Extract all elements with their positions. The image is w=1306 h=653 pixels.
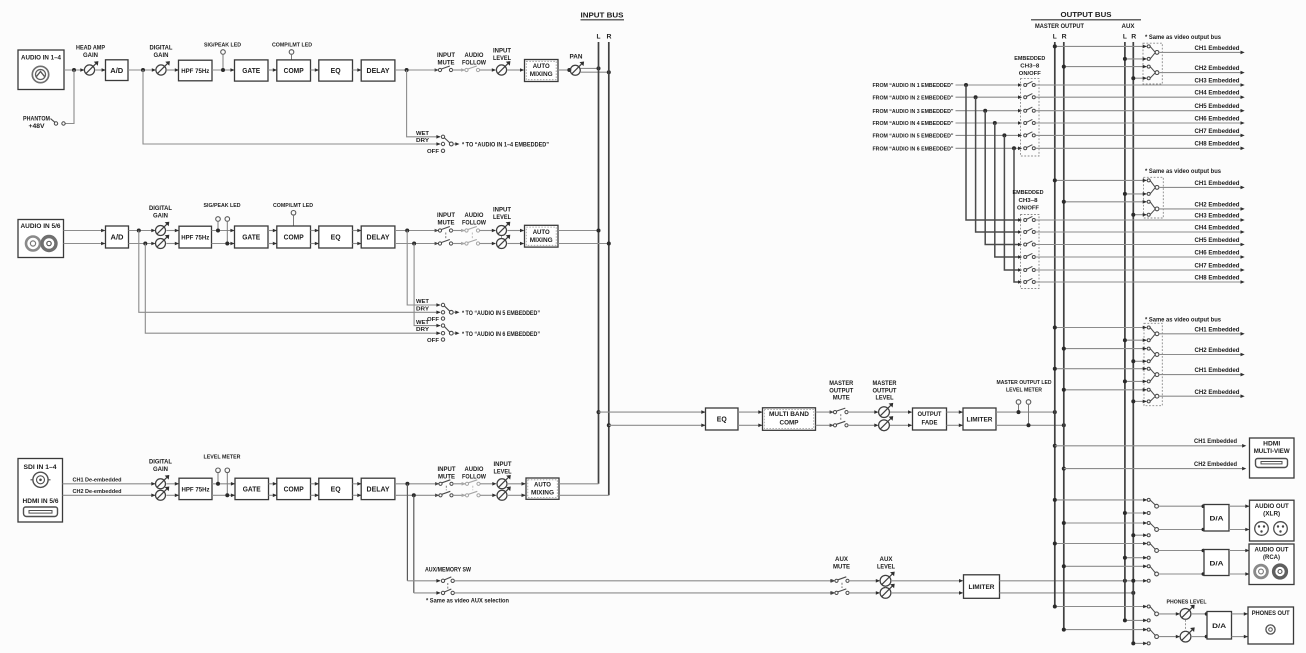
junction wet tap ch5 (405, 229, 409, 233)
svg-text:CH2 Embedded: CH2 Embedded (1194, 461, 1237, 468)
connector box AUDIO OUT (XLR) (1250, 500, 1295, 541)
wire AUDIO FOLLOW to INPUT LEVEL (row1) (480, 68, 497, 72)
svg-text:DELAY: DELAY (367, 485, 390, 494)
wire tap MR section1 (1062, 65, 1147, 69)
wire tap AR section3 y401.4 (1131, 399, 1146, 403)
svg-text:L: L (1123, 34, 1127, 41)
svg-text:CH1 Embedded: CH1 Embedded (1195, 367, 1240, 374)
svg-text:LEVEL METER: LEVEL METER (1006, 388, 1043, 394)
wire DELAY to INPUT MUTE (row1) (395, 69, 438, 71)
svg-text:COMP/LMT LED: COMP/LMT LED (273, 203, 313, 209)
svg-text:INPUT: INPUT (493, 49, 511, 55)
svg-text:MASTER OUTPUT: MASTER OUTPUT (1035, 24, 1084, 30)
svg-text:CH6 Embedded: CH6 Embedded (1195, 115, 1240, 122)
switch INPUT MUTE (row1) (435, 53, 456, 72)
knob MASTER OUTPUT LEVEL L (873, 381, 898, 418)
wire dry feed ch6 (145, 244, 440, 336)
block EQ (master) (706, 408, 739, 430)
switch embedded on/off sec1 row3 (1024, 107, 1036, 112)
wire XLR poles to D/A (1159, 504, 1206, 531)
wire HEAD AMP GAIN to A/D (96, 68, 106, 72)
svg-text:MUTE: MUTE (438, 61, 455, 67)
svg-text:CH2 Embedded: CH2 Embedded (1195, 65, 1240, 72)
block DELAY (row2) (361, 226, 395, 248)
block DELAY (row1) (361, 60, 395, 81)
svg-text:* TO “AUDIO IN 5 EMBEDDED”: * TO “AUDIO IN 5 EMBEDDED” (462, 311, 540, 317)
svg-text:LEVEL METER: LEVEL METER (204, 455, 242, 461)
knob AUX LEVEL R (880, 584, 895, 599)
svg-text:COMP: COMP (284, 233, 304, 242)
switch INPUT MUTE ch6 (435, 233, 453, 246)
svg-text:CH4 Embedded: CH4 Embedded (1195, 90, 1240, 97)
svg-text:FADE: FADE (922, 419, 939, 426)
switch group RCA select (1143, 542, 1158, 583)
svg-text:COMP/LMT LED: COMP/LMT LED (272, 43, 312, 49)
svg-text:SIG/PEAK LED: SIG/PEAK LED (204, 43, 241, 49)
switch embedded on/off sec2 row6 (1024, 278, 1036, 283)
wire drop from-line 1 to section2 (966, 85, 1022, 222)
block LIMITER (aux) (964, 575, 1000, 599)
switch AUDIO FOLLOW ch5 (461, 213, 486, 232)
svg-text:FROM “AUDIO IN 2 EMBEDDED”: FROM “AUDIO IN 2 EMBEDDED” (873, 95, 954, 101)
wire HPF to GATE (row2) (212, 229, 235, 246)
wire drop from-line 3 to section2 (985, 111, 1022, 247)
block HPF 75Hz (row3) (179, 478, 212, 499)
switch PHANTOM +48V (23, 117, 65, 131)
selector box section3 (1144, 323, 1162, 405)
svg-text:COMP: COMP (284, 66, 304, 75)
switch INPUT MUTE sdi1 (435, 467, 456, 486)
switch embedded on/off sec1 row6 (1024, 145, 1036, 150)
switch AUDIO FOLLOW sdi1 (462, 467, 487, 486)
junction aux R on bus (1131, 591, 1135, 595)
svg-text:GATE: GATE (242, 66, 260, 75)
wire AUDIO IN 1-4 to HEAD AMP GAIN (64, 68, 85, 72)
wire tap MR section2 (1062, 200, 1147, 204)
svg-text:MIXING: MIXING (530, 237, 553, 244)
wire LIMITER to output bus L (996, 411, 1055, 413)
connector box AUDIO IN 1-4 (18, 50, 64, 90)
svg-text:OUTPUT BUS: OUTPUT BUS (1061, 10, 1112, 19)
switch AUX MUTE L (831, 557, 850, 583)
svg-text:* TO “AUDIO IN 1–4 EMBEDDED”: * TO “AUDIO IN 1–4 EMBEDDED” (462, 143, 549, 149)
svg-text:DELAY: DELAY (367, 66, 390, 75)
LED COMP/LMT (row2) (273, 203, 313, 226)
junction PAN input (567, 68, 571, 72)
svg-text:* Same as video output bus: * Same as video output bus (1145, 35, 1222, 41)
wire D/A to AUDIO OUT XLR (1229, 504, 1250, 531)
svg-text:CH3 Embedded: CH3 Embedded (1195, 212, 1240, 219)
svg-text:LEVEL: LEVEL (493, 215, 511, 221)
wire taps to RCA switch group (1053, 542, 1147, 583)
svg-text:COMP: COMP (284, 485, 304, 494)
wire tap AL section3 y340.2 (1123, 338, 1147, 342)
wire CH1 De-embedded (63, 477, 156, 485)
wire AUTO MIXING to bus R (row2) (558, 243, 609, 245)
svg-text:CH7 Embedded: CH7 Embedded (1195, 128, 1240, 135)
wire HPF to GATE (row3) (212, 482, 235, 497)
svg-text:CH4 Embedded: CH4 Embedded (1195, 224, 1240, 231)
wire CH8 Embedded (section2) (1035, 274, 1244, 283)
switch group XLR select (1143, 498, 1158, 537)
wire PAN to input bus R (581, 71, 609, 73)
LED LEVEL METER L (row3) (204, 455, 242, 486)
svg-text:FOLLOW: FOLLOW (462, 475, 486, 481)
wire taps to XLR switch group (1053, 498, 1147, 537)
bus INPUT BUS L (598, 42, 600, 484)
svg-text:FROM “AUDIO IN 1 EMBEDDED”: FROM “AUDIO IN 1 EMBEDDED” (873, 83, 954, 89)
svg-text:CH2 De-embedded: CH2 De-embedded (73, 489, 122, 495)
wire tap MR section3 y389.8 (1062, 388, 1147, 392)
svg-text:LIMITER: LIMITER (967, 417, 993, 424)
switch AUX MUTE R (831, 583, 849, 595)
knob INPUT LEVEL ch6 (497, 235, 511, 249)
switch embedded on/off sec2 row1 (1024, 216, 1036, 221)
junction master L takeoff (597, 410, 601, 414)
wire FROM AUDIO IN 1 EMBEDDED (873, 83, 1023, 89)
wire FROM AUDIO IN 5 EMBEDDED (873, 134, 1023, 140)
svg-text:AUX: AUX (880, 557, 893, 563)
svg-text:WET: WET (416, 320, 430, 326)
svg-text:L: L (1053, 34, 1057, 41)
wire phantom branch (66, 70, 75, 124)
switch group PHONES select (1143, 605, 1158, 646)
knob INPUT LEVEL sdi1 (494, 462, 512, 489)
block COMP (row3) (277, 478, 311, 499)
svg-text:CH5 Embedded: CH5 Embedded (1195, 237, 1240, 244)
wire aux riser sdi1 (406, 484, 408, 581)
selector CH2 Embedded (section3a) (1143, 347, 1245, 363)
switch INPUT MUTE ch5 (435, 213, 456, 232)
svg-text:MUTE: MUTE (833, 396, 850, 402)
switch INPUT MUTE sdi2 (435, 486, 453, 497)
wire GATE to COMP (row1) (268, 68, 277, 72)
knob HEAD AMP GAIN (76, 46, 105, 76)
svg-text:GATE: GATE (243, 485, 261, 494)
svg-text:WET: WET (416, 299, 430, 305)
knob PAN (row1) (570, 55, 585, 76)
wire dry feed ch5 (139, 231, 441, 315)
switch WET/DRY/OFF ch6 (416, 320, 453, 344)
svg-text:* TO “AUDIO IN 6 EMBEDDED”: * TO “AUDIO IN 6 EMBEDDED” (462, 332, 540, 338)
wire wet feed (row1) (407, 70, 441, 139)
wire MBC to MASTER OUTPUT MUTE (816, 412, 834, 425)
wire DELAY to INPUT MUTE (row3) (395, 484, 439, 496)
wire INPUT LEVEL to AUTO MIXING (row3) (508, 482, 526, 497)
switch embedded on/off sec1 row4 (1024, 119, 1036, 124)
LED SIG/PEAK R (row2) (225, 217, 230, 246)
svg-text:INPUT: INPUT (437, 53, 455, 59)
svg-text:HDMI IN 5/6: HDMI IN 5/6 (23, 499, 60, 505)
wire dry feed (row1) (143, 70, 441, 146)
svg-text:HPF 75Hz: HPF 75Hz (182, 487, 210, 494)
wire riser to AUX/MEMORY SW 1 (407, 579, 440, 583)
wire tap AR section1 (1131, 76, 1146, 80)
wire CH3 Embedded (section1) (1035, 77, 1244, 86)
junction master R on output bus (1062, 423, 1066, 427)
label Same as video AUX selection (426, 598, 509, 604)
svg-text:MULTI-VIEW: MULTI-VIEW (1254, 448, 1291, 455)
wire tap MR section3 y348.6 (1062, 347, 1147, 351)
LED MASTER OUTPUT LED LEVEL METER R (1026, 400, 1031, 428)
knob DIGITAL GAIN (row1) (150, 46, 173, 76)
wire drop from-line 2 to section2 (976, 97, 1023, 234)
svg-text:CH2 Embedded: CH2 Embedded (1195, 201, 1240, 208)
knob INPUT LEVEL (row1) (493, 49, 511, 76)
svg-text:AUDIO IN 5/6: AUDIO IN 5/6 (21, 224, 62, 230)
label Same as video output bus (section2) (1145, 169, 1222, 175)
junction dry tap (row1) (141, 68, 145, 72)
block COMP (row2) (277, 226, 311, 248)
wire CH8 Embedded (section1) (1035, 141, 1244, 150)
block GATE (row3) (235, 478, 269, 499)
switch MASTER OUTPUT MUTE R (830, 414, 849, 427)
wire DIGITAL GAIN to HPF (row3) (167, 482, 180, 497)
svg-text:OFF: OFF (427, 149, 440, 155)
wire tap ML section3 y327.5 (1053, 326, 1147, 330)
wire AUDIO IN 6 to A/D (64, 242, 106, 246)
svg-text:COMP: COMP (780, 419, 800, 426)
knob INPUT LEVEL sdi2 (497, 487, 511, 501)
svg-text:CH3–8: CH3–8 (1020, 64, 1040, 70)
selector CH2 Embedded (section2) (1143, 200, 1245, 217)
wire tap AL section2 (1123, 192, 1147, 196)
block OUTPUT FADE (913, 408, 947, 430)
svg-text:HEAD AMP: HEAD AMP (76, 46, 105, 52)
svg-text:CH2 Embedded: CH2 Embedded (1195, 347, 1240, 354)
wire drop from-line 5 to section2 (1004, 135, 1022, 271)
svg-text:LEVEL: LEVEL (493, 56, 511, 62)
block LIMITER (master) (963, 408, 996, 430)
knob AUX LEVEL L (877, 557, 895, 586)
block D/A (PHONES) (1207, 612, 1232, 640)
wire INPUT MUTE to AUDIO FOLLOW (row1) (453, 69, 465, 71)
selector CH1 Embedded (section1) (1143, 45, 1245, 61)
wire EQ to MULTI BAND COMP (738, 410, 763, 427)
wire CH6 Embedded (section1) (1035, 115, 1244, 124)
wire CH5 Embedded (section2) (1035, 237, 1244, 246)
wire drop from-line 4 to section2 (995, 123, 1022, 259)
bus MASTER OUTPUT R (1063, 42, 1065, 630)
svg-text:GAIN: GAIN (153, 214, 168, 220)
svg-text:(XLR): (XLR) (1263, 511, 1280, 518)
svg-text:GATE: GATE (242, 233, 260, 242)
svg-text:CH6 Embedded: CH6 Embedded (1195, 249, 1240, 256)
svg-text:D/A: D/A (1210, 561, 1224, 568)
switch AUDIO FOLLOW ch6 (461, 233, 480, 246)
wire CH4 Embedded (section2) (1035, 224, 1244, 233)
wire CH7 Embedded (section2) (1035, 262, 1244, 271)
wire tap AR section2 (1131, 213, 1146, 217)
wire AUX SW to AUX MUTE 2 (454, 591, 834, 595)
wire MUTE to FOLLOW (row2) (453, 231, 465, 244)
svg-text:CH2 Embedded: CH2 Embedded (1195, 389, 1240, 396)
wire A/D to DIGITAL GAIN (row1) (128, 68, 156, 72)
switch embedded on/off sec1 row2 (1024, 94, 1036, 99)
block A/D (row2) (106, 226, 129, 248)
svg-text:FROM “AUDIO IN 6 EMBEDDED”: FROM “AUDIO IN 6 EMBEDDED” (873, 147, 954, 153)
junction wet tap ch6 (412, 242, 416, 246)
block EQ (row2) (319, 226, 353, 248)
wire CH5 Embedded (section1) (1035, 103, 1244, 112)
svg-text:FROM “AUDIO IN 3 EMBEDDED”: FROM “AUDIO IN 3 EMBEDDED” (873, 109, 954, 115)
wire drop from-line 6 to section2 (1014, 148, 1022, 283)
switch AUDIO FOLLOW sdi2 (462, 486, 481, 497)
wire D/A to PHONES OUT (1232, 612, 1249, 638)
svg-text:CH8 Embedded: CH8 Embedded (1195, 274, 1240, 281)
svg-text:CH1 De-embedded: CH1 De-embedded (73, 477, 122, 483)
wire FROM AUDIO IN 6 EMBEDDED (873, 147, 1023, 153)
wire LIMITER to output bus R (996, 424, 1064, 426)
junction dry tap ch5 (137, 229, 141, 233)
wire aux riser sdi2 (413, 495, 415, 593)
junction from-line 5 (1002, 133, 1006, 137)
bus AUX L (1124, 42, 1126, 620)
junction aux L on bus (1123, 579, 1127, 583)
wire bus R to EQ master (609, 424, 706, 428)
svg-text:AUX: AUX (1122, 24, 1135, 30)
block D/A (RCA) (1204, 550, 1229, 576)
svg-text:CH3–8: CH3–8 (1019, 198, 1039, 204)
svg-text:CH5 Embedded: CH5 Embedded (1195, 103, 1240, 110)
knob INPUT LEVEL ch5 (493, 208, 511, 236)
wire to AUDIO IN 6 EMBEDDED (453, 331, 540, 337)
wire A/D to DIGITAL GAIN ch5 (129, 229, 156, 233)
wire COMP to EQ (row2) (311, 229, 320, 246)
svg-text:DIGITAL: DIGITAL (149, 460, 172, 466)
svg-text:CH1 Embedded: CH1 Embedded (1195, 180, 1240, 187)
selector CH1 Embedded (section2) (1143, 179, 1245, 196)
svg-text:D/A: D/A (1212, 623, 1226, 630)
block AUTO MIXING (row3) (526, 478, 559, 499)
svg-text:DRY: DRY (416, 306, 429, 312)
svg-text:MASTER OUTPUT LED: MASTER OUTPUT LED (997, 380, 1052, 386)
bus label MASTER OUTPUT (1035, 24, 1084, 30)
embedded box CH3-8 ON/OFF (section2) (1013, 190, 1044, 289)
wire GATE to COMP (row3) (269, 482, 278, 497)
svg-text:AUTO: AUTO (533, 63, 550, 70)
junction row2 R on bus (607, 242, 611, 246)
wire MUTE to MASTER OUTPUT LEVEL (848, 410, 879, 427)
bus AUX R (1132, 42, 1134, 643)
svg-text:LEVEL: LEVEL (494, 470, 512, 476)
svg-text:HPF 75Hz: HPF 75Hz (181, 68, 209, 75)
svg-text:MIXING: MIXING (531, 489, 554, 496)
svg-text:FROM “AUDIO IN 5 EMBEDDED”: FROM “AUDIO IN 5 EMBEDDED” (873, 134, 954, 140)
label Same as video output bus (section3) (1145, 317, 1222, 323)
svg-text:AUDIO: AUDIO (465, 467, 484, 473)
svg-text:SDI IN 1–4: SDI IN 1–4 (24, 465, 58, 471)
wire CH3 Embedded (section2) (1035, 212, 1244, 221)
wire AUX MUTE to AUX LEVEL (849, 579, 880, 595)
junction dry tap ch6 (143, 242, 147, 246)
wire COMP to EQ (row3) (311, 482, 320, 497)
svg-text:CH8 Embedded: CH8 Embedded (1195, 141, 1240, 148)
svg-text:DELAY: DELAY (367, 233, 390, 242)
svg-text:FOLLOW: FOLLOW (462, 221, 486, 227)
svg-text:MUTE: MUTE (438, 221, 455, 227)
svg-text:INPUT: INPUT (438, 467, 456, 473)
svg-text:CH7 Embedded: CH7 Embedded (1195, 262, 1240, 269)
wire CH7 Embedded (section1) (1035, 128, 1244, 137)
wire AUX LEVEL to LIMITER (891, 579, 963, 595)
wire DELAY to INPUT MUTE (row2) (395, 231, 439, 244)
switch embedded on/off sec2 row2 (1024, 228, 1036, 233)
svg-text:L: L (597, 34, 601, 41)
wire FROM AUDIO IN 3 EMBEDDED (873, 109, 1023, 115)
svg-text:* Same as video AUX selection: * Same as video AUX selection (426, 598, 509, 604)
block EQ (row1) (319, 60, 353, 81)
junction pan R on bus (607, 70, 611, 74)
svg-text:EQ: EQ (717, 415, 727, 424)
junction wet tap (row1) (405, 68, 409, 72)
wire tap ML section1 (1053, 44, 1147, 48)
LED COMP/LMT (row1) (272, 43, 312, 60)
svg-text:AUDIO: AUDIO (465, 53, 484, 59)
wire riser to AUX/MEMORY SW 2 (414, 591, 441, 595)
knob DIGITAL GAIN sdi1 (149, 460, 172, 489)
bus label INPUT BUS (581, 11, 625, 20)
svg-text:A/D: A/D (111, 233, 124, 242)
selector CH2 Embedded (section3b) (1143, 388, 1245, 403)
svg-text:R: R (1062, 34, 1067, 41)
svg-text:EQ: EQ (331, 485, 341, 494)
svg-text:AUDIO IN 1–4: AUDIO IN 1–4 (21, 56, 62, 62)
wire GATE to COMP (row2) (268, 229, 277, 246)
wire CH6 Embedded (section2) (1035, 249, 1244, 258)
junction row2 L on bus (597, 229, 601, 233)
LED LEVEL METER R (row3) (225, 468, 230, 497)
svg-text:HPF 75Hz: HPF 75Hz (181, 235, 209, 242)
svg-text:D/A: D/A (1210, 516, 1224, 523)
connector box PHONES OUT (1248, 607, 1294, 644)
svg-text:R: R (1131, 34, 1136, 41)
knob DIGITAL GAIN ch6 (156, 235, 170, 249)
block MULTI BAND COMP (763, 408, 816, 431)
switch embedded on/off sec2 row5 (1024, 266, 1036, 271)
wire EQ to DELAY (row2) (353, 229, 362, 246)
svg-text:* Same as video output bus: * Same as video output bus (1145, 169, 1222, 175)
wire DIGITAL GAIN to HPF (row1) (167, 68, 179, 72)
wire AUTO MIXING to bus L (row2) (558, 230, 599, 232)
svg-text:CH1 Embedded: CH1 Embedded (1195, 45, 1240, 52)
wire FOLLOW to INPUT LEVEL (row3) (480, 482, 497, 497)
bus MASTER OUTPUT L (1054, 42, 1056, 607)
svg-text:AUDIO OUT: AUDIO OUT (1255, 547, 1289, 554)
svg-text:PHANTOM: PHANTOM (23, 117, 50, 123)
switch WET/DRY/OFF ch5 (416, 299, 453, 323)
wire to AUDIO IN 1-4 EMBEDDED (453, 142, 549, 148)
wire aux limiter to AUX bus L (1000, 580, 1134, 582)
svg-text:EQ: EQ (331, 233, 341, 242)
knob PHONES LEVEL R (1159, 620, 1195, 642)
svg-text:MUTE: MUTE (833, 565, 850, 571)
svg-text:DRY: DRY (416, 327, 429, 333)
svg-text:DIGITAL: DIGITAL (149, 206, 172, 212)
wire INPUT LEVEL to AUTO MIXING (row1) (508, 68, 525, 72)
svg-text:MIXING: MIXING (530, 71, 553, 78)
block COMP (row1) (277, 60, 311, 81)
wire CH2 De-embedded (63, 489, 156, 497)
knob PHONES LEVEL L (1159, 599, 1207, 619)
svg-text:A/D: A/D (110, 66, 123, 75)
wire DIGITAL GAIN to HPF (row2) (167, 229, 180, 246)
switch AUX/MEMORY SW 1 (425, 568, 471, 583)
bus label OUTPUT BUS (1031, 10, 1141, 20)
junction aux tap sdi2 (412, 493, 416, 497)
switch embedded on/off sec1 row5 (1024, 132, 1036, 137)
junction from-line 1 (964, 83, 968, 87)
